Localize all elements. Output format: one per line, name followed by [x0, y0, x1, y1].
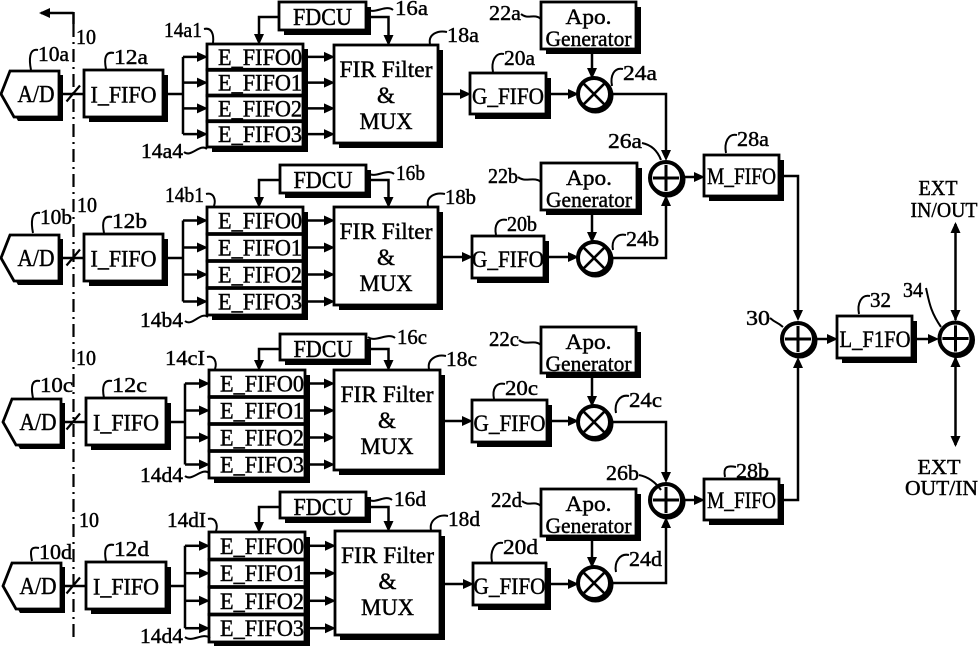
label 14d4 row d	[140, 624, 210, 646]
arrow branch to E_FIFO2 row c	[185, 433, 210, 443]
svg-text:E_FIFO3: E_FIFO3	[220, 616, 304, 641]
svg-text:20a: 20a	[504, 46, 536, 70]
E_FIFO bank 14c1-14c4	[209, 370, 310, 483]
arrow FIR to G_FIFO row d	[440, 579, 474, 589]
M_FIFO 28a	[704, 155, 784, 201]
svg-text:26b: 26b	[606, 461, 639, 485]
label 18b	[428, 185, 476, 209]
svg-text:E_FIFO1: E_FIFO1	[220, 399, 304, 424]
label 16c	[368, 325, 427, 349]
svg-text:OUT/IN: OUT/IN	[905, 476, 978, 500]
label 18d	[431, 507, 481, 531]
label 20d	[491, 535, 538, 562]
svg-text:24d: 24d	[629, 547, 663, 571]
wire A/D to I_FIFO row a	[58, 93, 84, 96]
svg-text:E_FIFO2: E_FIFO2	[220, 426, 304, 451]
FIR Filter & MUX 18b	[334, 207, 443, 310]
label 14dI	[167, 508, 217, 532]
svg-text:E_FIFO0: E_FIFO0	[218, 45, 302, 70]
arrow branch to E_FIFO0 row b	[183, 216, 208, 226]
svg-text:MUX: MUX	[361, 595, 414, 621]
svg-text:E_FIFO2: E_FIFO2	[218, 96, 302, 121]
I_FIFO 12c	[86, 398, 171, 450]
arrow E_FIFO3 to FIR row c	[310, 460, 335, 470]
svg-text:G_FIFO: G_FIFO	[474, 574, 546, 600]
arrow E_FIFO1 to FIR row d	[310, 568, 336, 578]
Apo. Generator 22a	[541, 2, 641, 54]
svg-text:10a: 10a	[38, 42, 70, 66]
svg-text:12c: 12c	[112, 373, 147, 397]
FDCU right arrow row b	[366, 180, 394, 208]
wire multiplier 24b to adder 26a	[610, 195, 671, 258]
svg-text:E_FIFO3: E_FIFO3	[220, 453, 304, 478]
adder 26b	[650, 484, 684, 518]
svg-text:IN/OUT: IN/OUT	[911, 198, 978, 222]
svg-text:30: 30	[746, 306, 770, 330]
arrow G_FIFO to multiplier 24a	[546, 89, 579, 99]
svg-text:18c: 18c	[446, 347, 477, 371]
svg-text:18d: 18d	[448, 507, 481, 531]
arrow branch to E_FIFO3 row b	[183, 297, 208, 307]
label 10c	[32, 373, 73, 398]
label 28b	[724, 459, 769, 483]
M_FIFO 28b	[704, 479, 784, 525]
svg-text:Generator: Generator	[546, 187, 632, 212]
svg-text:10: 10	[77, 193, 97, 217]
svg-text:E_FIFO1: E_FIFO1	[220, 561, 304, 586]
FDCU left arrow row a	[254, 17, 279, 45]
G_FIFO 20c	[472, 400, 552, 447]
svg-text:G_FIFO: G_FIFO	[472, 84, 544, 110]
svg-text:FIR Filter: FIR Filter	[341, 382, 434, 408]
svg-text:EXT: EXT	[919, 176, 958, 200]
svg-text:10d: 10d	[39, 540, 73, 564]
label 22b	[488, 164, 541, 188]
arrow Apo.Generator to multiplier 24c	[587, 373, 597, 407]
svg-text:I_FIFO: I_FIFO	[91, 247, 157, 273]
svg-text:&: &	[377, 245, 395, 270]
svg-text:28b: 28b	[736, 459, 769, 483]
A/D converter 10a	[1, 71, 63, 121]
branch vertical row c	[184, 384, 187, 465]
svg-text:16c: 16c	[397, 325, 427, 349]
arrow FIR to G_FIFO row b	[438, 252, 473, 262]
wire A/D to I_FIFO row d	[60, 585, 86, 588]
svg-text:14a1: 14a1	[164, 18, 202, 42]
FDCU left arrow row b	[254, 180, 280, 208]
FDCU 16b	[280, 165, 371, 198]
multiplier 24a	[578, 78, 612, 112]
arrow branch to E_FIFO2 row b	[183, 270, 208, 280]
svg-text:FDCU: FDCU	[293, 4, 352, 31]
svg-text:24c: 24c	[629, 388, 662, 412]
multiplier 24b	[578, 242, 612, 276]
feedback arrow to transducer (top left)	[39, 8, 74, 24]
label 14a4	[141, 139, 207, 163]
label 22a	[489, 1, 541, 25]
wire I_FIFO to branch row b	[163, 257, 183, 260]
arrow E_FIFO3 to FIR row a	[308, 129, 335, 139]
svg-text:A/D: A/D	[18, 82, 55, 108]
FDCU right arrow row a	[366, 17, 394, 46]
label 18a	[430, 23, 480, 47]
svg-text:FIR Filter: FIR Filter	[340, 219, 433, 245]
svg-text:26a: 26a	[608, 129, 643, 153]
svg-text:FIR Filter: FIR Filter	[340, 57, 433, 83]
svg-text:Generator: Generator	[546, 513, 632, 538]
svg-text:10c: 10c	[40, 373, 73, 397]
arrow branch to E_FIFO1 row a	[183, 78, 208, 88]
svg-text:E_FIFO0: E_FIFO0	[220, 372, 304, 397]
svg-text:Generator: Generator	[546, 26, 632, 51]
label 10 row c	[76, 346, 96, 370]
svg-text:10: 10	[76, 25, 96, 49]
arrow adder 30 to L_F1FO	[815, 334, 838, 344]
arrow branch to E_FIFO3 row c	[185, 460, 210, 470]
wire A/D to I_FIFO row c	[60, 421, 86, 424]
label 10 row a	[76, 25, 96, 49]
multiplier 24c	[578, 406, 612, 440]
svg-text:22c: 22c	[489, 327, 519, 351]
wire multiplier 24c to adder 26b	[610, 422, 671, 483]
svg-text:14d4: 14d4	[140, 463, 184, 487]
label 16a	[367, 0, 429, 20]
A/D converter 10c	[3, 399, 65, 449]
label 12b	[103, 209, 147, 233]
svg-text:18a: 18a	[447, 23, 480, 47]
branch vertical row a	[182, 57, 185, 134]
arrow E_FIFO2 to FIR row d	[310, 596, 336, 606]
svg-text:MUX: MUX	[360, 271, 413, 297]
svg-text:10b: 10b	[40, 205, 72, 229]
arrow G_FIFO to multiplier 24d	[546, 579, 579, 589]
svg-text:A/D: A/D	[20, 410, 57, 436]
I_FIFO 12a	[84, 70, 168, 122]
svg-text:E_FIFO0: E_FIFO0	[218, 209, 302, 234]
label 10d	[31, 540, 73, 564]
FDCU 16d	[280, 492, 371, 523]
svg-text:FDCU: FDCU	[294, 167, 353, 194]
label EXT OUT/IN	[905, 455, 978, 500]
svg-text:Generator: Generator	[546, 351, 632, 376]
label 22c	[489, 327, 541, 351]
bus slash row d	[67, 578, 81, 594]
svg-text:18b: 18b	[445, 185, 476, 209]
arrow branch to E_FIFO2 row d	[185, 596, 210, 606]
svg-text:L_F1FO: L_F1FO	[840, 327, 911, 353]
E_FIFO bank 14a1-14a4	[207, 44, 308, 152]
arrow E_FIFO2 to FIR row a	[308, 103, 335, 113]
multiplier 24d	[578, 567, 612, 601]
svg-text:&: &	[378, 408, 396, 433]
label 12c	[103, 373, 147, 398]
arrow branch to E_FIFO1 row b	[183, 243, 208, 253]
svg-text:I_FIFO: I_FIFO	[93, 575, 159, 601]
bus slash row b	[67, 250, 81, 266]
label 20c	[493, 376, 538, 400]
arrow branch to E_FIFO0 row a	[183, 52, 208, 62]
svg-text:E_FIFO3: E_FIFO3	[218, 290, 302, 315]
svg-text:12d: 12d	[114, 537, 150, 561]
arrow Apo.Generator to multiplier 24b	[587, 210, 597, 243]
svg-text:A/D: A/D	[20, 574, 57, 600]
Apo. Generator 22c	[541, 327, 641, 378]
G_FIFO 20b	[472, 236, 549, 283]
arrow branch to E_FIFO3 row a	[183, 129, 208, 139]
wire multiplier 24a to adder 26a	[610, 94, 671, 161]
arrow branch to E_FIFO1 row d	[185, 568, 210, 578]
E_FIFO bank 14d1-14d4	[209, 532, 310, 646]
svg-text:E_FIFO1: E_FIFO1	[218, 71, 302, 96]
wire A/D to I_FIFO row b	[58, 257, 84, 260]
FDCU left arrow row c	[254, 349, 280, 371]
adder 34	[940, 323, 974, 357]
svg-text:I_FIFO: I_FIFO	[91, 83, 157, 109]
arrow L_F1FO to adder 34	[912, 334, 939, 344]
arrow branch to E_FIFO0 row c	[185, 379, 210, 389]
svg-text:22d: 22d	[491, 488, 522, 512]
arrow E_FIFO0 to FIR row a	[308, 52, 335, 62]
FDCU right arrow row d	[366, 507, 394, 532]
FDCU 16a	[279, 2, 371, 35]
label 24b	[613, 227, 659, 251]
branch vertical row d	[184, 546, 187, 628]
label 14b1	[165, 183, 215, 207]
label 26a	[608, 129, 661, 160]
arrow E_FIFO2 to FIR row c	[310, 433, 335, 443]
FIR Filter & MUX 18a	[334, 45, 443, 148]
svg-text:G_FIFO: G_FIFO	[474, 411, 546, 437]
arrow E_FIFO1 to FIR row c	[310, 406, 335, 416]
label 16b	[368, 161, 425, 185]
A/D converter 10d	[3, 563, 65, 613]
branch vertical row b	[182, 221, 185, 302]
svg-text:M_FIFO: M_FIFO	[707, 164, 776, 190]
label 20b	[495, 212, 537, 236]
arrow E_FIFO1 to FIR row b	[308, 243, 335, 253]
svg-text:14cI: 14cI	[165, 346, 205, 370]
label 14d4 row c	[140, 463, 209, 487]
label 34	[903, 278, 941, 327]
arrow E_FIFO3 to FIR row d	[310, 623, 336, 633]
label 14cI	[165, 346, 216, 370]
label EXT IN/OUT	[911, 176, 978, 222]
label 10 row b	[77, 193, 97, 217]
svg-text:14d4: 14d4	[140, 624, 184, 646]
arrow branch to E_FIFO3 row d	[185, 623, 210, 633]
label 14a1	[164, 18, 213, 43]
arrow E_FIFO0 to FIR row d	[310, 541, 336, 551]
FIR Filter & MUX 18c	[334, 370, 445, 475]
wire M_FIFO 28b to adder 30	[779, 357, 803, 500]
arrow Apo.Generator to multiplier 24a	[587, 49, 597, 79]
arrow E_FIFO0 to FIR row c	[310, 379, 335, 389]
svg-text:14dI: 14dI	[167, 508, 206, 532]
adder 26a	[650, 162, 684, 196]
wire I_FIFO to branch row d	[166, 585, 185, 588]
arrow Apo.Generator to multiplier 24d	[587, 536, 597, 568]
FDCU right arrow row c	[366, 349, 394, 371]
arrow G_FIFO to multiplier 24c	[547, 416, 579, 426]
svg-text:10: 10	[76, 346, 96, 370]
svg-text:E_FIFO2: E_FIFO2	[218, 263, 302, 288]
svg-text:24b: 24b	[626, 227, 659, 251]
label 14b4	[140, 308, 208, 332]
svg-text:10: 10	[79, 508, 99, 532]
arrow branch to E_FIFO2 row a	[183, 103, 208, 113]
label 30	[746, 306, 783, 330]
svg-text:22a: 22a	[489, 1, 522, 25]
wire multiplier 24d to adder 26b	[610, 517, 671, 583]
L_F1FO 32	[837, 316, 917, 363]
arrow adder 26a to M_FIFO 28a	[683, 172, 705, 182]
FDCU left arrow row d	[254, 507, 280, 533]
arrow E_FIFO3 to FIR row b	[308, 297, 335, 307]
label 22d	[491, 488, 541, 512]
label 10a	[30, 42, 70, 70]
svg-text:FDCU: FDCU	[294, 494, 353, 521]
svg-text:20c: 20c	[505, 376, 538, 400]
FDCU 16c	[280, 334, 371, 365]
label 12d	[105, 537, 149, 561]
Apo. Generator 22d	[541, 489, 641, 541]
svg-text:&: &	[379, 569, 397, 594]
svg-text:12b: 12b	[112, 209, 147, 233]
double arrow adder 34 to EXT OUT/IN	[951, 356, 961, 447]
label 12a	[105, 45, 149, 69]
svg-text:22b: 22b	[488, 164, 518, 188]
label 24a	[611, 61, 657, 86]
svg-text:E_FIFO2: E_FIFO2	[220, 589, 304, 614]
label 32	[858, 288, 891, 314]
I_FIFO 12d	[86, 562, 171, 614]
arrow G_FIFO to multiplier 24b	[544, 252, 579, 262]
wire I_FIFO to branch row a	[163, 93, 183, 96]
arrow E_FIFO1 to FIR row a	[308, 78, 335, 88]
svg-text:14b1: 14b1	[165, 183, 204, 207]
svg-text:16a: 16a	[395, 0, 429, 20]
svg-text:12a: 12a	[114, 45, 149, 69]
arrow adder 26b to M_FIFO 28b	[683, 495, 705, 505]
G_FIFO 20a	[470, 73, 551, 119]
svg-text:MUX: MUX	[361, 434, 414, 460]
arrow branch to E_FIFO1 row c	[185, 406, 210, 416]
wire I_FIFO to branch row c	[166, 421, 185, 424]
FIR Filter & MUX 18d	[335, 531, 445, 640]
Apo. Generator 22b	[541, 163, 642, 215]
svg-text:16d: 16d	[394, 487, 427, 511]
label 10 row d	[79, 508, 99, 532]
svg-text:16b: 16b	[396, 161, 425, 185]
arrow FIR to G_FIFO row a	[438, 89, 471, 99]
arrow E_FIFO2 to FIR row b	[308, 270, 335, 280]
A/D converter 10b	[1, 235, 63, 285]
arrow branch to E_FIFO0 row d	[185, 541, 210, 551]
I_FIFO 12b	[84, 234, 168, 286]
svg-text:E_FIFO3: E_FIFO3	[218, 122, 302, 147]
label 24d	[616, 547, 663, 572]
svg-text:24a: 24a	[623, 61, 658, 85]
svg-text:20d: 20d	[503, 535, 539, 559]
label 26b	[606, 461, 661, 490]
label 18c	[429, 347, 477, 371]
G_FIFO 20d	[473, 563, 551, 610]
arrow FIR to G_FIFO row c	[440, 416, 473, 426]
svg-text:G_FIFO: G_FIFO	[472, 247, 544, 273]
double arrow adder 34 to EXT IN/OUT	[951, 222, 961, 321]
svg-text:I_FIFO: I_FIFO	[93, 411, 159, 437]
svg-text:FIR Filter: FIR Filter	[341, 543, 434, 569]
svg-text:14a4: 14a4	[141, 139, 184, 163]
bus slash row c	[67, 414, 81, 430]
svg-text:32: 32	[870, 288, 891, 312]
wire M_FIFO 28a to adder 30	[779, 176, 803, 321]
label 20a	[492, 46, 535, 72]
svg-text:E_FIFO1: E_FIFO1	[218, 236, 302, 261]
arrow E_FIFO0 to FIR row b	[308, 216, 335, 226]
adder 30	[782, 323, 816, 357]
svg-text:34: 34	[903, 278, 923, 302]
svg-text:FDCU: FDCU	[294, 336, 353, 363]
svg-text:&: &	[377, 83, 395, 108]
svg-text:14b4: 14b4	[140, 308, 184, 332]
label 24c	[616, 388, 662, 413]
label 28a	[725, 127, 769, 153]
dash-dot boundary line 10	[72, 24, 74, 638]
svg-text:MUX: MUX	[360, 109, 413, 135]
svg-text:20b: 20b	[507, 212, 537, 236]
label 10b	[32, 205, 72, 233]
svg-text:28a: 28a	[737, 127, 770, 151]
E_FIFO bank 14b1-14b4	[207, 207, 308, 320]
svg-text:M_FIFO: M_FIFO	[707, 488, 776, 514]
svg-text:A/D: A/D	[18, 246, 55, 272]
bus slash row a	[67, 86, 81, 102]
label 16d	[368, 487, 427, 511]
svg-text:E_FIFO0: E_FIFO0	[220, 534, 304, 559]
